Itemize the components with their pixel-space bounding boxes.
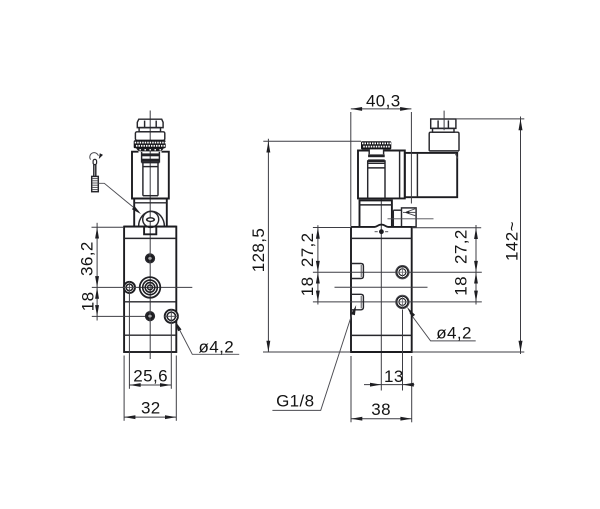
svg-text:13: 13 [384,367,404,386]
svg-text:ø4,2: ø4,2 [436,324,472,343]
svg-text:40,3: 40,3 [366,91,401,110]
svg-text:27,2: 27,2 [451,229,470,264]
svg-text:27,2: 27,2 [298,232,317,267]
svg-text:142~: 142~ [503,221,522,261]
svg-text:ø4,2: ø4,2 [198,337,234,356]
svg-text:32: 32 [141,399,161,418]
svg-text:18: 18 [298,277,317,297]
svg-text:25,6: 25,6 [133,366,168,385]
svg-text:38: 38 [371,400,391,419]
svg-text:36,2: 36,2 [77,241,96,276]
svg-text:128,5: 128,5 [249,228,268,273]
svg-text:18: 18 [451,276,470,296]
svg-text:18: 18 [78,292,97,312]
svg-text:G1/8: G1/8 [276,392,314,411]
